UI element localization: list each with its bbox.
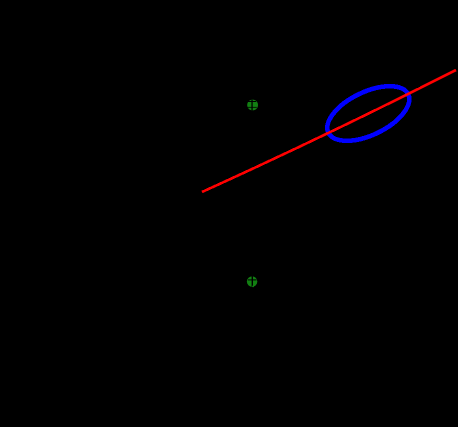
- red trajectory line: [202, 70, 456, 192]
- green body marker B: [247, 276, 257, 287]
- green body marker A: [247, 100, 258, 111]
- blue orbit ellipse: [319, 75, 417, 152]
